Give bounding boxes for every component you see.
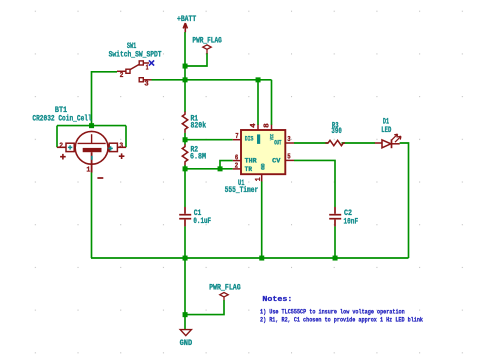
svg-text:7: 7 <box>235 133 238 141</box>
capacitor C1 <box>179 207 191 226</box>
wire junction to PWR_FLAG stem <box>185 53 207 66</box>
svg-text:1: 1 <box>146 64 149 72</box>
svg-text:3: 3 <box>144 80 148 88</box>
svg-text:GND: GND <box>180 340 193 348</box>
junction node R2/C1/pin2 <box>183 166 188 171</box>
junction node rail/C2 <box>333 256 338 261</box>
svg-text:PWR_FLAG: PWR_FLAG <box>192 38 222 46</box>
wire lower junction to GND <box>184 315 186 330</box>
wire U1 pin1 to rail <box>261 181 263 258</box>
svg-text:DIS: DIS <box>245 136 254 143</box>
wire ground rail <box>91 257 409 259</box>
svg-text:+BATT: +BATT <box>177 16 196 24</box>
svg-text:3: 3 <box>287 136 290 144</box>
svg-text:SW1: SW1 <box>127 43 137 51</box>
U1 pin 6 stub <box>233 160 241 162</box>
svg-text:2: 2 <box>120 72 124 80</box>
wire U1 pin5 to C2 top <box>294 160 335 207</box>
svg-text:5: 5 <box>287 154 290 162</box>
svg-text:LED: LED <box>381 127 391 135</box>
U1 pin 3 stub <box>285 142 294 144</box>
LED D1 arrowheads <box>394 134 397 137</box>
U1 pin name R (rotated, pin4) <box>257 134 260 144</box>
svg-text:Notes:: Notes: <box>262 296 292 304</box>
power symbol +BATT <box>183 23 187 32</box>
wire R1/R2 junction to U1 pin 7 <box>185 139 233 141</box>
svg-text:CV: CV <box>272 157 281 164</box>
power flag PWR_FLAG top <box>203 45 211 54</box>
U1 pin 8 stub <box>271 125 273 130</box>
wire battery top to switch common <box>92 72 118 126</box>
wire C2 bottom to rail <box>334 226 336 258</box>
LED D1 <box>375 135 401 148</box>
wire battery bracket right drop <box>125 126 127 148</box>
wire U1 pin3 to R3 <box>294 142 328 144</box>
wire battery bracket horizontal <box>57 125 126 127</box>
svg-text:Switch_SW_SPDT: Switch_SW_SPDT <box>109 52 162 60</box>
wire battery negative riser <box>91 173 93 259</box>
svg-text:3: 3 <box>119 143 123 151</box>
U1 pin 4 stub <box>257 125 259 130</box>
wire R3 to LED <box>342 142 376 144</box>
junction node GND/PWR_FLAG <box>183 312 188 317</box>
resistor R3 <box>325 140 345 145</box>
wire LED to right riser <box>400 143 409 258</box>
ground GND symbol <box>180 330 191 336</box>
wire R1 bottom to junction to R2 top <box>184 133 186 145</box>
wire R2 bottom junction to U1 pin 2 <box>185 168 233 170</box>
svg-text:555_Timer: 555_Timer <box>225 187 259 195</box>
svg-text:2: 2 <box>59 142 63 150</box>
svg-text:C2: C2 <box>344 210 352 218</box>
wire branch up to U1 pin 6 <box>220 161 233 169</box>
svg-text:BT1: BT1 <box>55 107 67 115</box>
svg-text:6: 6 <box>235 154 238 162</box>
switch SW1 <box>117 61 152 82</box>
wire R2 bottom to C1 top <box>184 165 186 207</box>
resistor R2 <box>182 144 187 165</box>
battery BT1 body <box>57 131 126 178</box>
no-connect X on SW1 pin 1 <box>149 60 154 65</box>
U1 pin 5 stub <box>285 159 294 161</box>
svg-text:2) R1, R2, C1 chosen to provid: 2) R1, R2, C1 chosen to provide approx 1… <box>260 317 423 325</box>
svg-text:1: 1 <box>255 177 263 181</box>
svg-text:THR: THR <box>245 158 257 165</box>
op-amp U1 555 timer body <box>241 130 285 174</box>
svg-text:D1: D1 <box>383 119 389 127</box>
wire junction down to switch rail <box>184 66 186 80</box>
junction node at switch rail <box>183 77 188 82</box>
svg-text:C1: C1 <box>194 210 202 218</box>
svg-text:TR: TR <box>245 166 253 173</box>
svg-text:CR2032 Coin_Cell: CR2032 Coin_Cell <box>32 116 92 124</box>
resistor R1 <box>182 112 187 133</box>
U1 pin 1 stub <box>261 174 263 181</box>
svg-text:GND: GND <box>261 163 267 170</box>
U1 pin 2 stub <box>233 168 241 170</box>
wire rail down to R1 top <box>184 80 186 112</box>
junction node rail/pin1 <box>259 256 264 261</box>
U1 pin 7 stub <box>233 139 241 141</box>
wire drop to U1 pin 4 <box>257 80 259 125</box>
junction node pin6 branch <box>218 166 223 171</box>
wire drop to U1 pin 8 <box>271 80 273 125</box>
wire C1 bottom to ground rail <box>184 226 186 258</box>
svg-text:6.8M: 6.8M <box>190 154 206 162</box>
svg-text:390: 390 <box>331 128 342 136</box>
svg-text:8: 8 <box>264 123 272 128</box>
wire lower junction to PWR_FLAG stem <box>185 300 224 315</box>
svg-text:1) Use TLC555CP to insure low: 1) Use TLC555CP to insure low voltage op… <box>260 308 405 316</box>
wire +BATT vertical to junction <box>184 32 186 66</box>
svg-text:OUT: OUT <box>274 140 281 147</box>
svg-text:4: 4 <box>250 123 258 128</box>
svg-text:1: 1 <box>86 166 90 174</box>
junction node R1/R2 <box>183 137 188 142</box>
svg-text:820k: 820k <box>191 123 207 131</box>
capacitor C2 <box>329 207 341 226</box>
wire rail down to lower junction <box>184 258 186 315</box>
junction node at pin4 drop <box>256 77 261 82</box>
wire top rail from switch pin3 to pin8 drop <box>152 79 272 81</box>
wire battery bracket left drop <box>56 126 58 148</box>
power flag PWR_FLAG bottom <box>220 293 228 301</box>
svg-text:10nF: 10nF <box>344 218 359 226</box>
svg-text:2: 2 <box>235 163 239 171</box>
svg-text:0.1uF: 0.1uF <box>193 218 211 226</box>
junction node at +BATT/PWR_FLAG <box>183 64 188 69</box>
battery plus marks (teal) <box>68 145 72 149</box>
svg-text:PWR_FLAG: PWR_FLAG <box>209 284 241 292</box>
junction node rail/C1 <box>183 256 188 261</box>
junction node battery top <box>89 123 94 128</box>
